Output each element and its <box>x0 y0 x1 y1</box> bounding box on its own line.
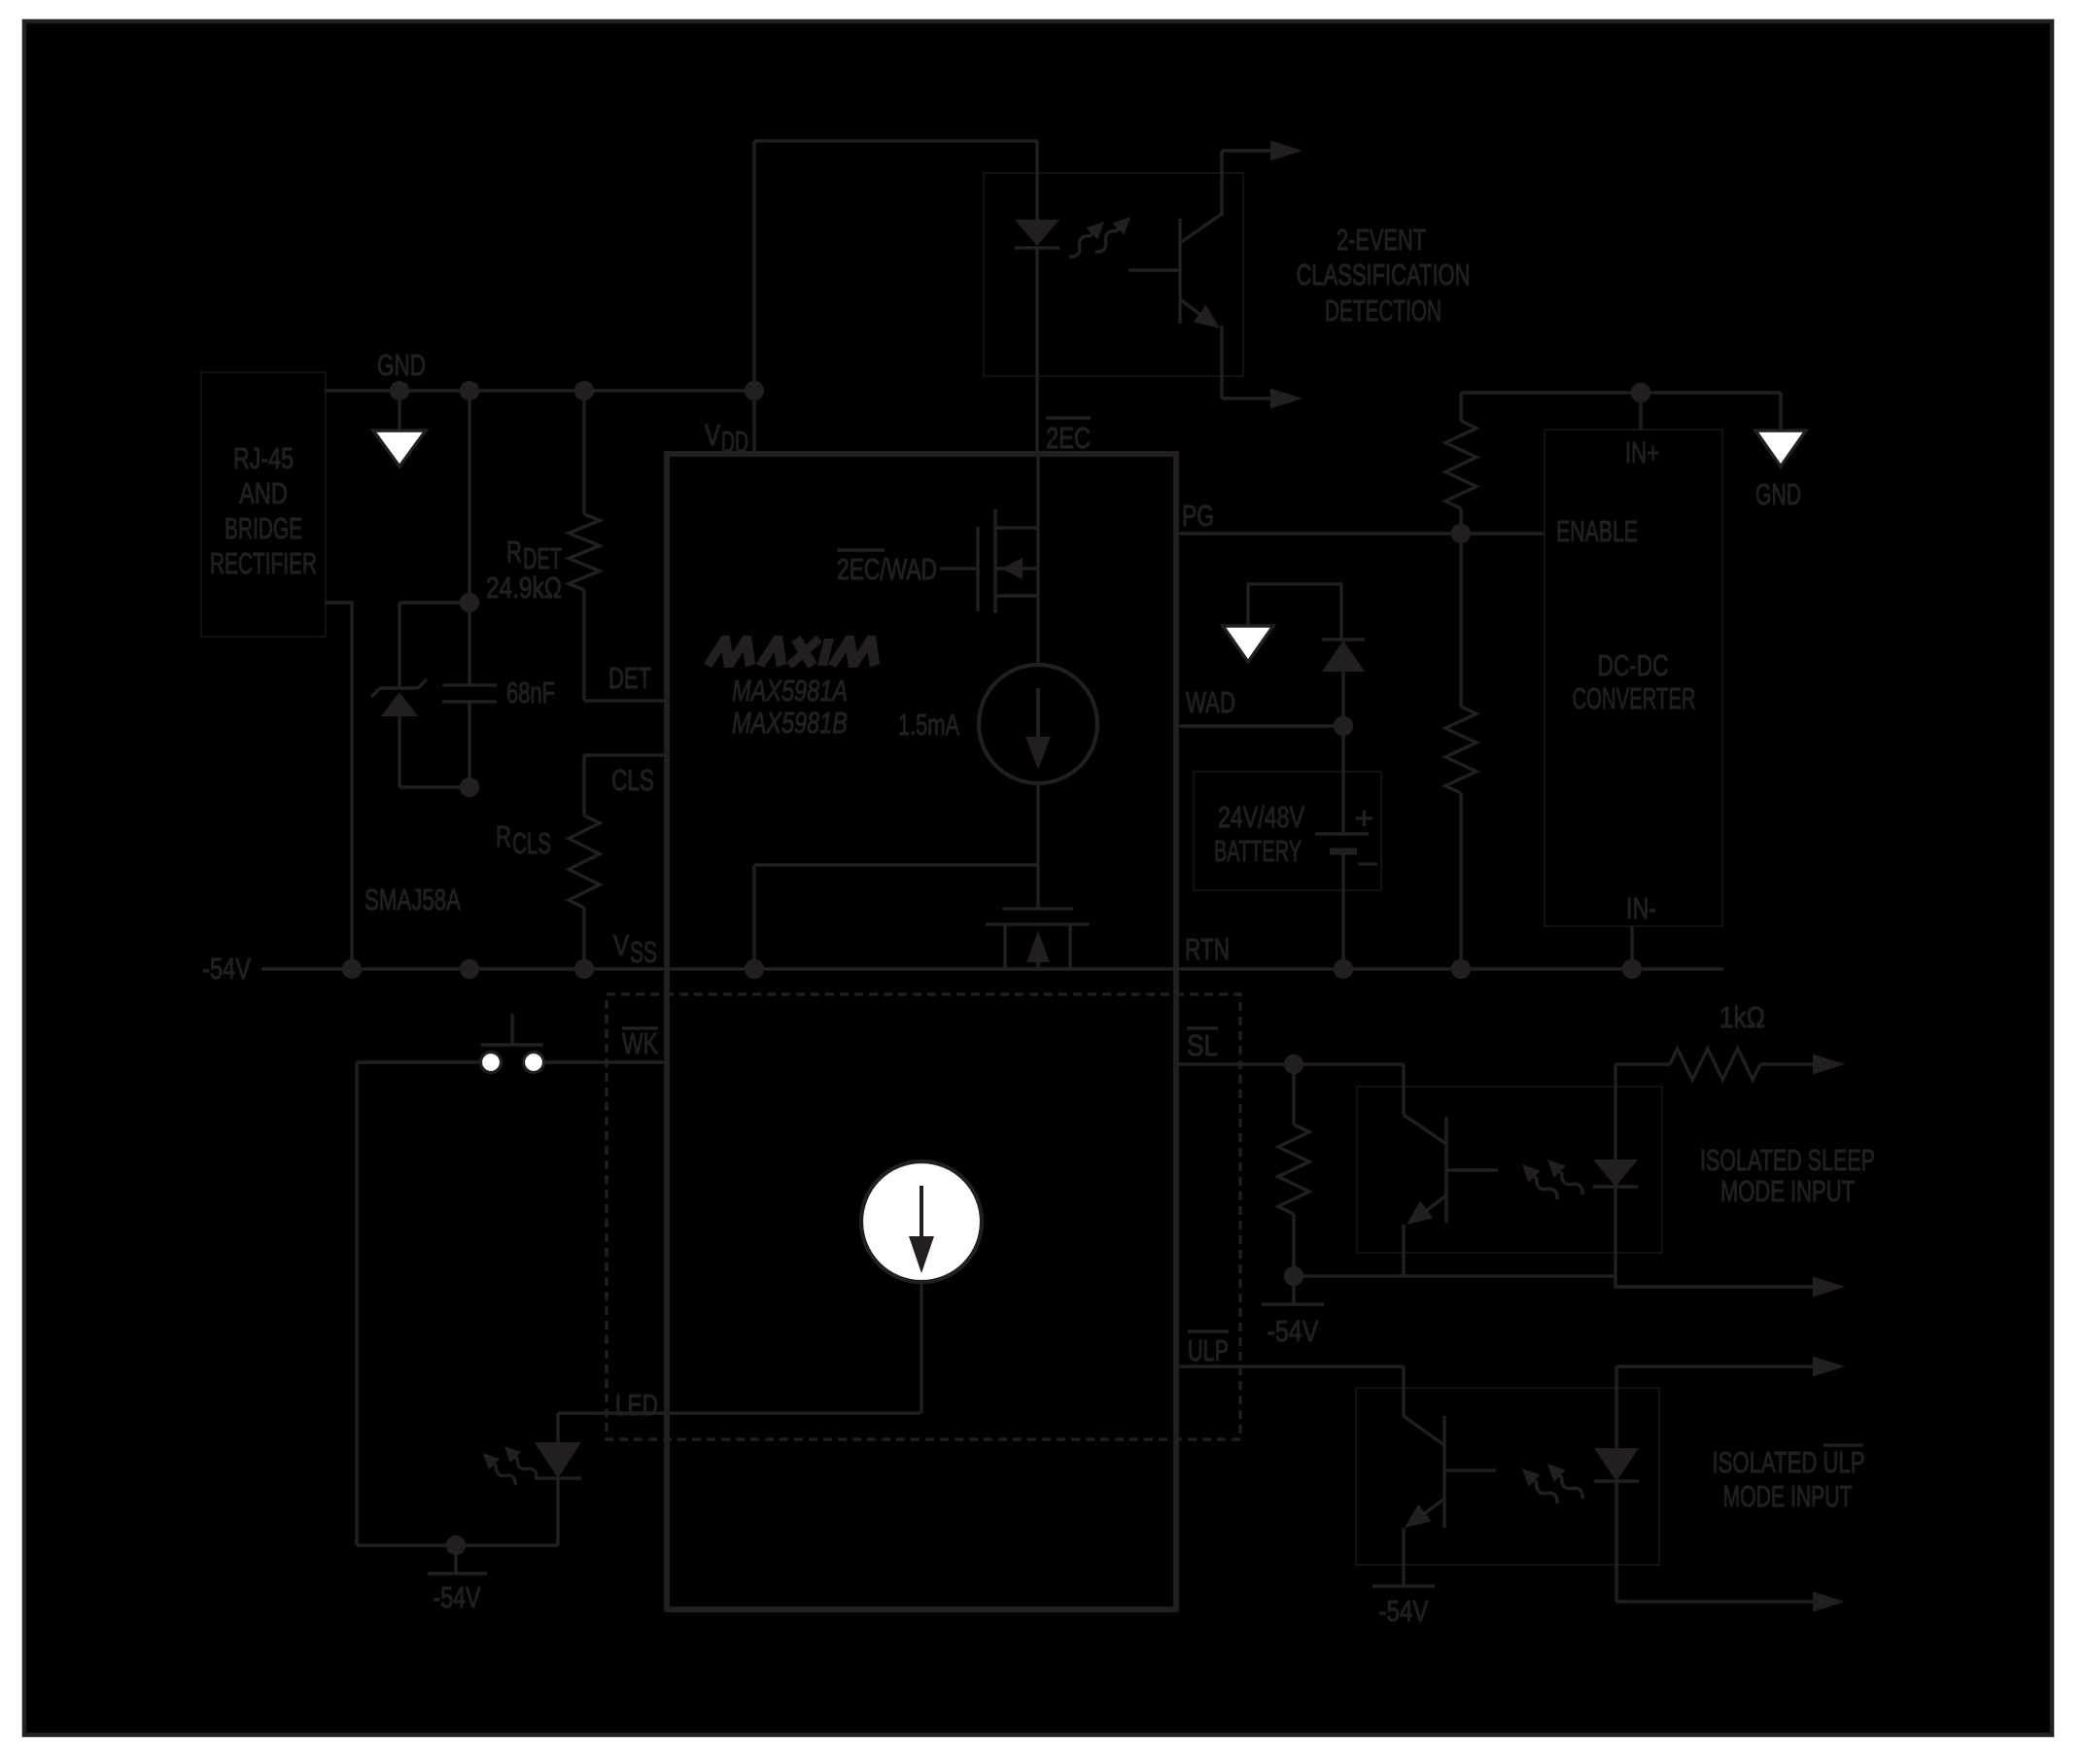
text ISOLATED ULP with overline <box>1823 1443 1863 1446</box>
wire zener top to cap node <box>399 601 469 604</box>
wire RJ45 to -54V rail <box>326 603 352 969</box>
optocoupler U4 transistor base bar <box>1442 1416 1445 1528</box>
ground -54V bar bottom-left <box>428 1572 487 1574</box>
svg-text:RJ-45: RJ-45 <box>233 441 294 475</box>
junction dot ENABLE <box>1451 524 1471 543</box>
svg-text:DD: DD <box>721 425 748 459</box>
wire WK left segment <box>357 1060 480 1063</box>
battery B1 plus sign <box>1356 816 1372 819</box>
junction dot GND-triangle <box>390 381 409 400</box>
optocoupler U3 transistor base lead <box>1446 1168 1498 1171</box>
arrow SL output top <box>1813 1055 1845 1075</box>
resistor R3 lead bottom <box>1292 1214 1295 1276</box>
diode D2 light arrow 1 <box>477 1447 520 1490</box>
wire 2EC top loop horizontal <box>754 139 1037 142</box>
svg-text:BRIDGE: BRIDGE <box>225 511 302 545</box>
transistor Q1 PMOS source stub <box>995 594 1038 597</box>
wire 1k to arrow <box>1760 1062 1814 1065</box>
resistor R1 lead bottom <box>1459 508 1462 534</box>
svg-text:R: R <box>496 819 511 853</box>
junction dot rail cap <box>460 959 479 979</box>
svg-text:WK: WK <box>622 1026 658 1060</box>
transistor Q2 NMOS gate stub <box>1036 865 1039 909</box>
wire ULP anode to arrow <box>1616 1365 1814 1367</box>
svg-text:R: R <box>506 535 522 569</box>
arrow ULP output top <box>1813 1357 1845 1377</box>
svg-text:MAX5981B: MAX5981B <box>732 706 848 740</box>
capacitor C1 68nF plates <box>442 683 497 686</box>
wire DET pin <box>584 699 667 702</box>
resistor R4 1k body <box>1670 1049 1760 1080</box>
junction dot zener bottom <box>460 778 479 797</box>
transistor Q2 NMOS right leg <box>1068 924 1071 969</box>
junction dot R3 bottom <box>1284 1266 1303 1286</box>
optocoupler U3 LED triangle <box>1593 1159 1638 1187</box>
ground GND right stem <box>1779 393 1782 431</box>
arrow output bottom <box>1270 389 1302 409</box>
transistor Q1 PMOS channel bar <box>993 509 996 613</box>
junction dot WAD <box>1334 716 1353 736</box>
diode D1 triangle <box>1322 640 1365 672</box>
wire 2EC vertical <box>1036 454 1039 665</box>
optocoupler U4 LED cathode bar <box>1594 1479 1639 1482</box>
svg-text:CLS: CLS <box>611 763 654 797</box>
svg-text:2EC/WAD: 2EC/WAD <box>837 552 937 586</box>
switch S1 contact right (white) <box>524 1053 544 1073</box>
wire LED anode <box>556 1413 559 1442</box>
ground -54V bar SL <box>1262 1302 1324 1305</box>
wire LED cathode <box>556 1478 559 1545</box>
DC-DC converter box <box>1545 430 1722 926</box>
optocoupler U2 transistor base bar <box>1178 219 1181 324</box>
svg-text:DET: DET <box>608 661 651 695</box>
arrow ULP output bottom <box>1813 1592 1845 1612</box>
wire cap lower branch <box>468 702 470 787</box>
diode D2 LED triangle <box>535 1442 581 1478</box>
svg-text:PG: PG <box>1182 499 1214 533</box>
pin label ULP with overline <box>1188 1330 1229 1332</box>
optocoupler U3 transistor emitter <box>1411 1195 1446 1222</box>
ground GND right triangle (white) <box>1755 431 1806 467</box>
wire PG to ENABLE <box>1176 532 1545 535</box>
current source I1 1.5mA circle <box>979 665 1097 783</box>
optocoupler U3 transistor base bar <box>1444 1117 1447 1223</box>
svg-text:CLS: CLS <box>512 826 551 860</box>
svg-text:-54V: -54V <box>1379 1594 1429 1628</box>
resistor RCLS body <box>569 815 600 908</box>
svg-text:24V/48V: 24V/48V <box>1218 800 1304 834</box>
wire WK right segment <box>544 1060 667 1063</box>
diode SMAJ58A zener lead top <box>398 603 400 688</box>
resistor R3 SL pulldown lead top <box>1292 1064 1295 1124</box>
wire current source to NMOS <box>1036 783 1039 865</box>
diode D2 LED cathode bar <box>535 1476 581 1479</box>
transistor Q1 PMOS body arrow <box>1001 558 1023 579</box>
optocoupler U2 LED triangle <box>1015 220 1059 246</box>
wire I2 to LED wire <box>920 1282 922 1413</box>
optocoupler U2 transistor emitter <box>1180 299 1215 326</box>
svg-text:2-EVENT: 2-EVENT <box>1337 223 1426 257</box>
wire VDD stub <box>752 391 755 454</box>
junction dot zener top <box>460 593 479 612</box>
wire U3 bottom <box>1294 1276 1814 1287</box>
svg-text:1.5mA: 1.5mA <box>898 708 959 742</box>
svg-text:ISOLATED SLEEP: ISOLATED SLEEP <box>1700 1143 1875 1177</box>
junction dot RDET branch <box>574 381 594 400</box>
pin label 2EC/WAD with overline <box>837 548 885 551</box>
wire SL to 1k resistor <box>1615 1062 1670 1065</box>
resistor RDET lead bottom <box>582 590 585 701</box>
svg-text:GND: GND <box>1755 477 1801 511</box>
wire zener bottom <box>399 785 469 788</box>
svg-text:2EC: 2EC <box>1046 421 1091 455</box>
resistor R2 lead bottom <box>1459 793 1462 969</box>
wire battery top lead <box>1341 726 1344 834</box>
pin label 2EC with overline <box>1046 416 1091 419</box>
optocoupler U2 LED cathode lead <box>1035 248 1038 454</box>
resistor RDET lead top <box>582 391 585 514</box>
diode D1 anode lead <box>1341 672 1344 726</box>
svg-text:-54V: -54V <box>1267 1314 1319 1348</box>
optocoupler U4 light arrow 1 <box>1516 1463 1563 1509</box>
optocoupler U4 LED triangle <box>1594 1448 1639 1481</box>
svg-text:CONVERTER: CONVERTER <box>1573 681 1696 715</box>
wire LED pin horizontal <box>558 1411 920 1414</box>
svg-text:RTN: RTN <box>1185 932 1230 966</box>
optocoupler U3 transistor collector <box>1402 1064 1405 1115</box>
diode D2 light arrow 2 <box>499 1440 541 1483</box>
svg-text:AND: AND <box>239 476 288 510</box>
junction dot rail RJ45 <box>342 959 362 979</box>
transistor Q1 gate lead <box>940 567 978 570</box>
current source I1 arrow <box>1036 688 1040 741</box>
battery B1 positive plate <box>1315 832 1369 835</box>
transistor Q1 PMOS body stub <box>995 567 1038 570</box>
wire cap upper branch <box>468 391 470 685</box>
wire NMOS gate node to rail <box>752 865 755 969</box>
current source I2 LED driver circle (white) <box>861 1161 982 1282</box>
wire battery bottom lead <box>1341 851 1344 969</box>
junction dot VDD <box>745 381 764 400</box>
wire bottom-left horizontal <box>357 1543 558 1546</box>
svg-text:WAD: WAD <box>1186 685 1235 719</box>
optocoupler U3 LED cathode lead <box>1614 1187 1616 1276</box>
optocoupler U4 box <box>1356 1388 1659 1565</box>
svg-text:SMAJ58A: SMAJ58A <box>365 882 461 917</box>
arrow SL output bottom <box>1813 1277 1845 1297</box>
svg-text:LED: LED <box>615 1388 658 1422</box>
wire NMOS gate node horizontal <box>754 863 1038 866</box>
wire IN+ stub <box>1639 393 1642 430</box>
resistor R2 body <box>1445 707 1476 793</box>
svg-text:IN-: IN- <box>1626 891 1656 925</box>
svg-text:RECTIFIER: RECTIFIER <box>210 546 317 580</box>
optocoupler U2 transistor base lead <box>1128 268 1180 271</box>
svg-text:ULP: ULP <box>1188 1333 1229 1367</box>
RJ-45 bridge rectifier box <box>201 372 326 637</box>
junction dot rail battery <box>1334 959 1353 979</box>
svg-text:ENABLE: ENABLE <box>1556 514 1638 548</box>
junction dot bottom-left ground <box>446 1536 466 1555</box>
wire opto U2 emitter output <box>1222 397 1272 399</box>
ground -54V bar ULP <box>1372 1584 1435 1587</box>
svg-text:ISOLATED ULP: ISOLATED ULP <box>1713 1445 1865 1479</box>
optocoupler U4 transistor base lead <box>1444 1469 1496 1471</box>
wire GND rail right <box>1461 391 1781 394</box>
optocoupler U2 transistor collector <box>1180 214 1222 243</box>
optocoupler U3 light arrow 2 <box>1542 1154 1588 1200</box>
junction dot cap branch <box>460 381 479 400</box>
resistor R1 lead top <box>1459 393 1462 421</box>
ground -54V stub bottom-left <box>454 1545 457 1574</box>
svg-text:68nF: 68nF <box>506 675 555 709</box>
resistor RCLS lead bottom <box>582 908 585 969</box>
svg-text:MODE INPUT: MODE INPUT <box>1720 1174 1855 1208</box>
transistor Q2 NMOS gate bar <box>1002 907 1073 910</box>
optocoupler U2 box <box>984 173 1243 376</box>
wire IN- stub <box>1630 926 1633 969</box>
svg-text:BATTERY: BATTERY <box>1214 834 1302 868</box>
pin label SL with overline <box>1187 1026 1218 1029</box>
optocoupler U3 box <box>1357 1087 1662 1253</box>
svg-text:MODE INPUT: MODE INPUT <box>1723 1479 1853 1513</box>
diode SMAJ58A anode lead <box>398 716 400 787</box>
junction dot rail IN- <box>1622 959 1642 979</box>
resistor R3 body <box>1278 1124 1309 1214</box>
optocoupler U3 LED cathode bar <box>1593 1185 1638 1188</box>
svg-text:-54V: -54V <box>202 951 251 986</box>
wire CLS pin <box>584 753 667 756</box>
optocoupler U2 LED anode lead <box>1035 141 1038 220</box>
svg-text:V: V <box>705 418 720 452</box>
svg-text:SS: SS <box>630 935 657 969</box>
ground GND symbol stem <box>398 391 400 431</box>
switch S1 actuator <box>481 1043 543 1046</box>
optocoupler U4 transistor emitter <box>1409 1499 1444 1525</box>
transistor Q2 NMOS body arrow <box>1036 960 1039 969</box>
optocoupler U2 light arrow 2 <box>1090 211 1136 258</box>
wire WAD pin <box>1176 724 1343 727</box>
transistor Q1 PMOS gate bar <box>976 527 979 611</box>
optocoupler U3 light arrow 1 <box>1516 1159 1563 1205</box>
junction dot rail resistor R2 <box>1451 959 1471 979</box>
ground WAD stem wire <box>1248 584 1341 640</box>
optocoupler U4 LED cathode lead <box>1614 1481 1617 1602</box>
resistor R2 lead top <box>1459 534 1462 707</box>
battery B1 box <box>1194 772 1381 890</box>
resistor R1 body <box>1445 421 1476 508</box>
svg-text:-54V: -54V <box>434 1580 481 1614</box>
arrow output top <box>1270 141 1302 161</box>
pin label WK with overline <box>622 1026 658 1029</box>
optocoupler U4 transistor collector <box>1402 1366 1405 1416</box>
battery B1 minus sign <box>1358 862 1377 865</box>
svg-text:24.9kΩ: 24.9kΩ <box>486 571 562 605</box>
wire ULP pin <box>1176 1365 1404 1367</box>
junction dot IN+ branch <box>1631 383 1650 402</box>
svg-text:1kΩ: 1kΩ <box>1719 1000 1765 1034</box>
battery B1 negative plate <box>1330 848 1357 855</box>
svg-text:DETECTION: DETECTION <box>1325 294 1441 328</box>
wire 2EC top loop vertical <box>752 141 755 391</box>
wire opto U2 collector output <box>1222 149 1272 152</box>
junction dot rail RCLS <box>574 959 594 979</box>
op-amp U1 MAX5981 IC box <box>667 454 1176 1609</box>
diode SMAJ58A triangle <box>381 692 418 716</box>
ground -54V stub SL <box>1292 1276 1295 1304</box>
wire SL pin <box>1176 1062 1404 1065</box>
svg-text:SL: SL <box>1187 1028 1218 1062</box>
switch S1 contact left (white) <box>481 1053 502 1073</box>
optocoupler U2 LED cathode bar <box>1015 246 1059 249</box>
diode D1 cathode bar <box>1322 638 1365 640</box>
wire ULP cathode to arrow <box>1616 1600 1814 1603</box>
svg-text:V: V <box>613 928 629 962</box>
optocoupler U4 light arrow 2 <box>1542 1458 1588 1505</box>
svg-text:IN+: IN+ <box>1625 435 1659 469</box>
current source I2 arrow <box>920 1186 923 1240</box>
ground GND triangle (white) <box>373 431 426 467</box>
optocoupler U2 light arrow 1 <box>1063 216 1110 262</box>
transistor Q1 PMOS drain stub <box>995 526 1038 529</box>
wire WK down left side <box>355 1062 358 1545</box>
wire GND rail top <box>326 389 754 392</box>
optocoupler U4 LED anode lead <box>1614 1366 1617 1448</box>
junction dot rail IC internal <box>745 959 764 979</box>
wire -54V rail <box>261 967 1723 970</box>
diode SMAJ58A cathode bar <box>380 686 418 689</box>
svg-text:DC-DC: DC-DC <box>1598 648 1669 682</box>
ground WAD triangle (white) <box>1223 626 1273 662</box>
transistor Q2 NMOS channel bar <box>986 922 1090 925</box>
dashed function box <box>607 994 1240 1439</box>
svg-text:MAX5981A: MAX5981A <box>732 674 848 708</box>
resistor RCLS lead top <box>582 755 585 815</box>
optocoupler U3 LED anode lead <box>1614 1064 1616 1159</box>
svg-text:GND: GND <box>377 348 426 382</box>
svg-text:CLASSIFICATION: CLASSIFICATION <box>1297 258 1471 292</box>
resistor RDET body <box>569 514 600 590</box>
junction dot SL <box>1284 1055 1303 1074</box>
transistor Q2 NMOS left leg <box>1003 924 1006 969</box>
